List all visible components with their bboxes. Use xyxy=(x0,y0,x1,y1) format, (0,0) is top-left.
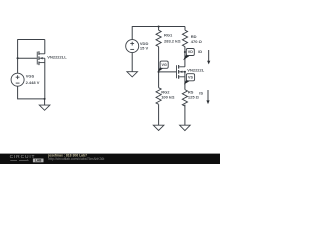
wire: gate lead of M1 xyxy=(18,57,37,59)
svg-text:LAB: LAB xyxy=(35,159,42,163)
wire: RD bottom lead / drain vertical of M2 xyxy=(184,47,186,67)
junction dot: ground node left circuit xyxy=(44,98,46,100)
wire: right circuit top rail xyxy=(132,26,185,28)
wire: RG2 bottom lead xyxy=(158,104,160,125)
footer black bar xyxy=(0,154,220,164)
current arrow IS xyxy=(206,90,209,104)
svg-text:2.448 V: 2.448 V xyxy=(26,80,40,85)
resistor RD 470 Ohm xyxy=(182,30,187,46)
probe VD xyxy=(183,49,194,61)
resistor RG2 100 kOhm xyxy=(156,88,161,105)
wire: RG1 top lead xyxy=(158,27,160,31)
transistor M1 (VN2222LL, left) xyxy=(37,51,45,65)
svg-text:15 V: 15 V xyxy=(140,46,149,51)
junction dot: rail tee at RG1 xyxy=(158,25,160,27)
wire: RD top lead xyxy=(184,27,186,31)
svg-text:VN2222LL: VN2222LL xyxy=(47,55,67,60)
current arrow ID xyxy=(207,50,210,64)
voltage source VGS 2.448 V xyxy=(11,73,24,86)
wire: VDD top lead xyxy=(131,26,133,40)
ground: below RG2 xyxy=(153,125,164,130)
svg-text:125 Ω: 125 Ω xyxy=(188,95,200,100)
wire: VDD bottom lead xyxy=(131,53,133,72)
probe VS xyxy=(184,74,195,85)
ground: below RS xyxy=(180,125,191,130)
junction dot: gate tee left circuit xyxy=(17,57,19,59)
wire: ground stub left circuit xyxy=(44,99,46,105)
resistor RG1 283.2 kOhm xyxy=(156,30,161,46)
wire: RS bottom lead xyxy=(184,105,186,126)
CircuitLab logo wordmark xyxy=(10,154,44,162)
svg-text:RG1: RG1 xyxy=(164,33,173,38)
wire: source vertical of M2 to RS xyxy=(184,72,186,90)
voltage source VDD 15 V xyxy=(126,40,139,53)
svg-text:ID: ID xyxy=(198,49,202,54)
svg-text:VGS: VGS xyxy=(26,74,35,79)
resistor RS 125 Ohm xyxy=(182,90,187,106)
svg-text:CIRCUIT: CIRCUIT xyxy=(10,154,36,160)
svg-text:VD: VD xyxy=(188,50,193,54)
svg-text:470 Ω: 470 Ω xyxy=(191,39,203,44)
wire: gate lead of M2 xyxy=(159,71,177,73)
svg-text:http://circuitlab.com/c/aba75m: http://circuitlab.com/c/aba75mAbK36t xyxy=(48,157,104,161)
wire: left circuit top rail xyxy=(18,39,45,41)
junction dot: VD probe attach xyxy=(184,51,186,53)
wire: RG2 top lead xyxy=(158,72,160,88)
wire: source vertical of M1 down to ground node xyxy=(44,58,46,99)
junction dot: body tie M2 xyxy=(184,71,186,73)
ground: left circuit xyxy=(39,105,50,110)
svg-text:VG: VG xyxy=(161,63,166,67)
svg-text:VN2222L: VN2222L xyxy=(187,68,204,73)
transistor M2 (VN2222L, right) xyxy=(177,65,185,79)
svg-text:283.2 kΩ: 283.2 kΩ xyxy=(164,39,181,44)
wire: left circuit left vertical xyxy=(17,39,19,73)
svg-text:100 kΩ: 100 kΩ xyxy=(161,94,175,99)
ground: below VDD xyxy=(127,72,138,77)
svg-text:IS: IS xyxy=(199,91,203,96)
junction dot: gate node xyxy=(158,71,160,73)
svg-text:VS: VS xyxy=(188,75,193,79)
wire: RG1 bottom lead to gate node xyxy=(158,47,160,72)
wire: drain vertical of M1 xyxy=(44,40,46,54)
probe VG xyxy=(158,61,169,72)
wire: VGS bottom lead xyxy=(18,86,45,99)
